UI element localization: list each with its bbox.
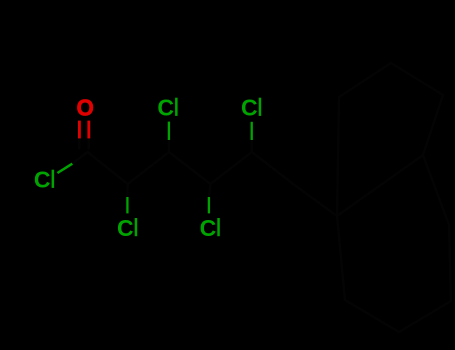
svg-text:C: C — [157, 95, 174, 121]
svg-text:C: C — [117, 215, 134, 241]
svg-text:C: C — [34, 167, 51, 193]
svg-text:O: O — [77, 94, 94, 121]
svg-text:C: C — [200, 215, 217, 241]
svg-text:C: C — [241, 95, 258, 121]
